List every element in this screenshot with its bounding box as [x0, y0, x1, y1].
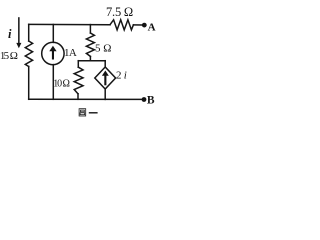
- wire left rail bottom segment: [28, 67, 30, 100]
- wire mid horizontal (node joining 10 ohm and 2i source): [78, 60, 105, 62]
- wire stub mid node to dependent source 2i: [104, 61, 106, 67]
- wire stub mid node to resistor 10 ohm: [77, 61, 79, 67]
- wire stub from top rail to current source I1: [52, 25, 54, 43]
- wire from resistor 7.5 ohm to node A: [133, 24, 142, 26]
- resistor 10 ohm (vertical zigzag): [74, 67, 83, 94]
- resistor 7.5 ohm (horizontal zigzag): [110, 20, 133, 30]
- resistor 15 ohm (vertical zigzag on left rail): [25, 41, 32, 67]
- wire from dependent source 2i to bottom rail: [104, 89, 106, 99]
- dependent current source 2i (diamond): [95, 67, 116, 89]
- wire stub from top rail to resistor 5 ohm: [89, 25, 91, 33]
- arrow for current i (left side, points down): [16, 17, 21, 48]
- node A terminal dot: [142, 23, 147, 28]
- caption glyph: Chinese character Tu (figure) drawn as strokes: [79, 109, 86, 116]
- arrow of dependent source 2i (points up): [102, 71, 109, 86]
- svg-text:5 Ω: 5 Ω: [95, 43, 111, 55]
- svg-text:A: A: [148, 21, 156, 33]
- svg-text:i: i: [8, 27, 12, 41]
- caption glyph: Chinese character Yi (one): [89, 112, 98, 113]
- node B terminal dot: [142, 97, 147, 102]
- svg-text:2i: 2i: [116, 70, 127, 82]
- wire left rail top segment: [28, 24, 30, 41]
- wire from resistor 5 ohm to mid node: [89, 56, 91, 60]
- svg-text:15Ω: 15Ω: [0, 50, 18, 62]
- svg-text:1A: 1A: [64, 47, 77, 59]
- svg-text:10Ω: 10Ω: [53, 78, 70, 89]
- arrow of current source I1 (points up): [49, 46, 56, 60]
- wire top rail left segment: [29, 23, 110, 25]
- svg-text:B: B: [147, 94, 155, 106]
- current source I1 circle (1 A): [42, 42, 64, 64]
- wire bottom rail: [29, 98, 143, 100]
- svg-text:7.5 Ω: 7.5 Ω: [106, 5, 133, 19]
- resistor 5 ohm (vertical zigzag, middle branch): [86, 33, 94, 56]
- wire from current source I1 to bottom rail: [52, 65, 54, 100]
- wire from resistor 10 ohm to bottom rail: [77, 94, 79, 100]
